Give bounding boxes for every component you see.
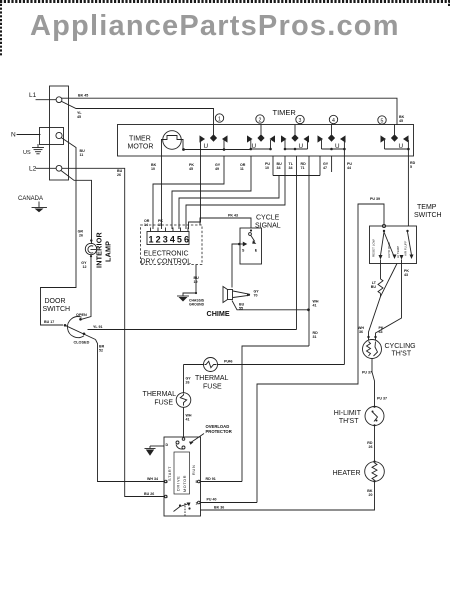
chime A1 [207, 287, 260, 319]
wire L2 branch to interior lamp [61, 171, 92, 244]
wire fuse2 to motor [183, 407, 185, 437]
overload protector [176, 441, 179, 444]
timer output cells [273, 156, 320, 176]
terminal N [56, 132, 62, 138]
svg-text:26: 26 [369, 445, 373, 449]
wire cycling to hi-limit [372, 359, 375, 407]
chassis ground (dry control) [195, 292, 197, 294]
svg-text:15: 15 [158, 223, 162, 227]
thermal fuse F1 [184, 358, 345, 391]
svg-text:TIMER: TIMER [129, 136, 151, 143]
wire staircase timer to EDC [153, 156, 224, 229]
wire cycle signal to chime [232, 244, 240, 288]
wire RD 31 (junction to motor riser) [242, 346, 309, 482]
svg-text:LAMP: LAMP [104, 241, 113, 262]
svg-text:BU: BU [371, 285, 377, 289]
svg-text:THERMAL: THERMAL [195, 375, 229, 382]
cycling thermostat [358, 326, 416, 359]
wire riser to door switch YL91 [296, 176, 298, 330]
svg-text:HEATER: HEATER [333, 470, 361, 477]
terminal L1 [56, 97, 62, 103]
wire L2 to terminal [36, 167, 56, 169]
cycle signal S1 [238, 215, 281, 265]
wire BU 26 into motor [125, 496, 164, 498]
svg-text:45: 45 [189, 167, 193, 171]
svg-text:BK 45: BK 45 [78, 94, 88, 98]
svg-text:GROUND: GROUND [189, 303, 205, 307]
svg-text:46: 46 [229, 360, 233, 364]
svg-text:10: 10 [151, 167, 155, 171]
drive motor M1 [164, 424, 232, 516]
timer contact 2 [247, 125, 275, 151]
watermark header [30, 10, 400, 43]
svg-text:RESET LOW: RESET LOW [372, 239, 376, 257]
svg-text:L1: L1 [29, 92, 37, 99]
border left dotted [0, 0, 2, 56]
svg-text:L2: L2 [29, 166, 37, 173]
svg-text:TIMER: TIMER [273, 108, 297, 117]
timer box [118, 125, 414, 157]
wire BU19 to chassis ground [183, 265, 196, 297]
wire labels below timer [151, 161, 416, 171]
wire PU39 jumper to PU40 riser [257, 204, 384, 503]
timer cam 3 [296, 115, 304, 123]
svg-text:ELECTRONIC: ELECTRONIC [144, 251, 189, 258]
svg-text:E: E [255, 249, 258, 253]
temp switch S3 [370, 197, 442, 264]
svg-text:S: S [242, 249, 245, 253]
svg-text:12: 12 [83, 265, 87, 269]
timer contact 3 [281, 125, 309, 151]
svg-text:HI TEMP: HI TEMP [396, 246, 400, 258]
svg-text:BK 36: BK 36 [214, 506, 224, 510]
svg-text:CLOSED: CLOSED [74, 341, 90, 345]
svg-text:4: 4 [332, 118, 335, 124]
border top dotted [0, 0, 450, 3]
interior lamp DS1 [78, 230, 113, 270]
svg-text:START: START [168, 466, 172, 481]
timer cam 4 [329, 115, 337, 123]
timer contact 5 [381, 125, 410, 151]
svg-text:INTERIOR: INTERIOR [95, 231, 104, 268]
svg-text:52: 52 [99, 349, 103, 353]
svg-text:3: 3 [299, 118, 302, 124]
svg-text:PU 39: PU 39 [370, 197, 380, 201]
svg-text:70: 70 [254, 294, 258, 298]
wire BR 52 (door switch closed to motor) [96, 340, 165, 482]
svg-text:FUSE: FUSE [203, 384, 222, 391]
svg-text:BU 17: BU 17 [44, 320, 54, 324]
heater R1 [333, 461, 385, 483]
thermal fuse F2 [143, 391, 191, 407]
wire RD 91 (motor to thermal fuse junction) [201, 481, 243, 483]
svg-text:OPEN: OPEN [76, 313, 87, 317]
svg-text:U: U [204, 143, 209, 150]
svg-text:PK 43: PK 43 [228, 214, 238, 218]
wire lamp to door switch open [82, 255, 92, 320]
svg-text:RD 91: RD 91 [206, 477, 216, 481]
svg-text:11: 11 [240, 167, 244, 171]
svg-text:TH'ST: TH'ST [392, 351, 412, 358]
terminal L2 [56, 165, 62, 171]
svg-text:19: 19 [194, 280, 198, 284]
svg-text:US: US [23, 150, 31, 156]
wire heater to motor BK36 [201, 481, 375, 510]
wire timer motor leads [161, 140, 163, 157]
wire riser PU44 to thermal fuse [343, 149, 345, 365]
wire riser RD5 to temp switch [407, 149, 409, 226]
svg-text:D: D [166, 443, 169, 447]
svg-text:41: 41 [313, 304, 317, 308]
svg-text:PU 37: PU 37 [377, 397, 387, 401]
svg-text:5: 5 [410, 165, 412, 169]
timer contact 1 [200, 134, 228, 156]
svg-text:10: 10 [265, 166, 269, 170]
svg-text:31: 31 [313, 335, 317, 339]
svg-text:34: 34 [289, 166, 293, 170]
svg-text:PU 40: PU 40 [207, 498, 217, 502]
wire BU 26 (L2 to motor riser) [62, 168, 125, 496]
svg-text:26: 26 [117, 173, 121, 177]
svg-text:SWITCH: SWITCH [43, 306, 71, 313]
svg-text:CYCLING: CYCLING [385, 343, 416, 350]
wire PK 43 temp switch to cycling [376, 260, 402, 341]
wire BK 45 (L1 to timer top) [62, 98, 397, 124]
svg-text:TH'ST: TH'ST [339, 418, 359, 425]
wire hi-limit to heater [374, 426, 376, 462]
timer cam 1 [215, 114, 223, 122]
hi-limit thermostat [334, 406, 384, 427]
timer cam 2 [256, 115, 264, 123]
wire N to terminal [17, 134, 40, 136]
wire resistor to cycling thermostat [369, 293, 381, 340]
svg-text:FUSE: FUSE [154, 400, 173, 407]
svg-text:43: 43 [404, 273, 408, 277]
svg-text:1: 1 [218, 116, 221, 122]
svg-text:CANADA: CANADA [18, 196, 43, 202]
svg-text:MOTOR: MOTOR [128, 144, 154, 151]
svg-text:20: 20 [369, 493, 373, 497]
svg-text:AIR FLUFF: AIR FLUFF [404, 241, 408, 256]
svg-text:TEMP: TEMP [417, 204, 437, 211]
svg-text:41: 41 [186, 418, 190, 422]
wire stub GY47 [331, 156, 333, 172]
svg-text:71: 71 [301, 166, 305, 170]
door switch S2 [43, 298, 96, 345]
centrifugal switch [179, 504, 181, 506]
svg-text:BU 26: BU 26 [144, 492, 154, 496]
svg-text:47: 47 [323, 166, 327, 170]
svg-text:PROTECTOR: PROTECTOR [206, 429, 232, 434]
wire chime to junction [232, 301, 309, 310]
svg-text:36: 36 [359, 330, 363, 334]
svg-text:DRY CONTROL: DRY CONTROL [141, 259, 192, 266]
svg-text:5: 5 [381, 118, 384, 124]
svg-text:CYCLE: CYCLE [256, 215, 280, 222]
svg-text:43: 43 [379, 330, 383, 334]
motor chassis ground [145, 446, 165, 456]
wire PU 40 (motor to riser) [201, 502, 258, 504]
svg-text:DOOR: DOOR [45, 298, 66, 305]
wire PK 43 to cycle signal [200, 218, 251, 228]
electronic dry control U2 [141, 219, 203, 266]
wire N riser to door switch common [41, 288, 77, 326]
svg-text:2: 2 [259, 117, 262, 123]
svg-text:YL 91: YL 91 [93, 325, 103, 329]
svg-text:DRIVE: DRIVE [177, 475, 181, 491]
svg-text:123456: 123456 [149, 235, 192, 245]
svg-text:26: 26 [186, 381, 190, 385]
svg-text:11: 11 [80, 153, 84, 157]
svg-text:26: 26 [79, 234, 83, 238]
wire temp switch lever [381, 264, 398, 297]
resistor (temp switch bias) [371, 260, 383, 294]
svg-text:THERMAL: THERMAL [143, 391, 177, 398]
wire fuse1 to fuse2 [183, 365, 185, 393]
svg-text:MOTOR: MOTOR [183, 475, 187, 492]
svg-text:34: 34 [277, 166, 281, 170]
junction chime/RD71 [307, 308, 310, 311]
svg-text:HI-LIMIT: HI-LIMIT [334, 410, 362, 417]
svg-text:PU 37: PU 37 [362, 371, 372, 375]
svg-text:45: 45 [399, 119, 403, 123]
svg-text:RUN: RUN [192, 464, 196, 475]
wire L1 to terminal [36, 99, 56, 101]
svg-text:49: 49 [215, 167, 219, 171]
svg-text:SWITCH: SWITCH [414, 212, 442, 219]
wire YL 45 (L1 diagonal to timer contact 1) [62, 102, 214, 136]
wire YL 91 (door switch to riser) [88, 329, 297, 331]
terminal block TB1 [50, 86, 69, 180]
svg-text:CHIME: CHIME [207, 309, 230, 318]
wire timer motor to EDC [161, 156, 163, 229]
svg-text:45: 45 [77, 115, 81, 119]
svg-text:WH 34: WH 34 [147, 477, 158, 481]
svg-text:N: N [11, 132, 16, 139]
N terminal box [40, 128, 64, 145]
timer cam 5 [378, 116, 386, 124]
svg-text:44: 44 [347, 166, 351, 170]
svg-text:14: 14 [144, 223, 148, 227]
timer contact 4 [318, 125, 346, 151]
wire BU 11 (N riser) [62, 138, 76, 288]
wire riser RD71 to chime junction [308, 176, 310, 347]
